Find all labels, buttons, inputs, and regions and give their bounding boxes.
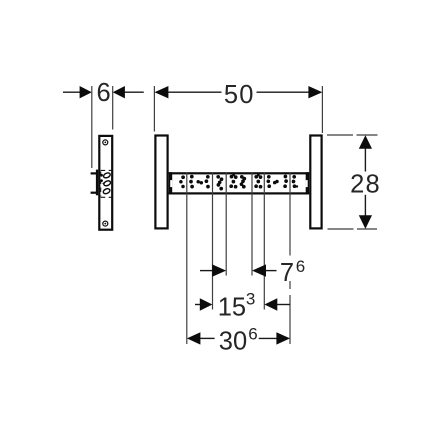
dimension 7.6 bbox=[200, 257, 305, 287]
extension line B x=212.5 bbox=[212, 172, 214, 309]
svg-text:6: 6 bbox=[97, 79, 111, 107]
side view slot 1 bbox=[103, 172, 111, 179]
svg-text:6: 6 bbox=[248, 324, 257, 343]
dimension 50 extension lines bbox=[153, 86, 155, 132]
svg-text:3: 3 bbox=[246, 290, 255, 309]
dimension 28 bbox=[350, 135, 381, 229]
svg-text:7: 7 bbox=[280, 259, 294, 287]
svg-text:15: 15 bbox=[218, 294, 246, 322]
extension line D x=252.0 bbox=[251, 172, 253, 275]
side view rail bottom arm bbox=[91, 192, 96, 194]
rail right end tab bbox=[306, 172, 310, 194]
side view slot 2 bbox=[103, 180, 111, 187]
svg-text:28: 28 bbox=[350, 171, 381, 199]
dimension 6 extension lines bbox=[91, 86, 93, 168]
extension line C x=226.2 bbox=[225, 172, 227, 275]
dimension 28 extension lines (dashed) bbox=[327, 134, 378, 136]
rail bottom border bbox=[169, 192, 310, 194]
extension line F x=290 (interrupted by text) bbox=[289, 172, 291, 344]
side view small dots bbox=[100, 174, 104, 185]
dimension 15.3 bbox=[195, 290, 290, 322]
dimension 50 bbox=[155, 81, 323, 109]
svg-text:6: 6 bbox=[296, 257, 305, 276]
extension line A x=186.8 bbox=[186, 172, 188, 344]
side view hidden rail outline (dashed) bbox=[101, 170, 112, 197]
front view right plate bbox=[310, 136, 321, 229]
side view top screw hole bbox=[103, 140, 108, 145]
rail top border bbox=[169, 172, 310, 174]
side view rail top arm bbox=[91, 172, 96, 174]
side view bottom screw hole bbox=[103, 221, 108, 226]
svg-text:50: 50 bbox=[224, 81, 255, 109]
svg-text:30: 30 bbox=[219, 327, 247, 355]
rail left end tab bbox=[169, 172, 173, 194]
rail speckle dots bbox=[179, 174, 298, 191]
dimension 30.6 bbox=[187, 324, 290, 355]
side view slot 3 bbox=[103, 188, 111, 195]
side view rail cross-section bar bbox=[96, 170, 98, 196]
dimension 6 bbox=[63, 79, 144, 107]
front view left plate bbox=[155, 136, 167, 229]
side view plate bbox=[99, 136, 112, 230]
extension line E x=264.3 bbox=[263, 172, 265, 309]
